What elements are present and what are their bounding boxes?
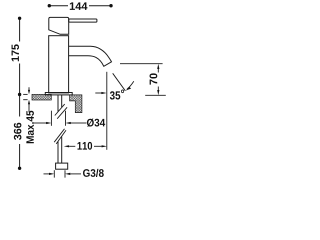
G3/8 right arrow and leader bbox=[65, 173, 70, 175]
countertop left slab (hatched) bbox=[32, 94, 51, 100]
countertop right piece (hatched) bbox=[70, 95, 82, 113]
label 366 bbox=[14, 123, 22, 140]
dimension dots on left line bbox=[18, 17, 21, 20]
label 110 bbox=[77, 142, 92, 150]
label G3/8 bbox=[83, 169, 104, 177]
label 70 bbox=[150, 73, 158, 84]
Max.45 dimension arrows and ticks bbox=[23, 93, 27, 95]
35 degrees: left arrow bbox=[95, 92, 101, 94]
70 dimension reference lines bbox=[120, 63, 163, 65]
35 degrees: inclined spout-axis line bbox=[113, 73, 126, 91]
label 175 bbox=[12, 44, 19, 61]
diameter 34 right extension tick bbox=[65, 111, 67, 126]
35 degrees: vertical reference line bbox=[106, 72, 108, 150]
hose break marks bbox=[55, 104, 65, 115]
supply hose below deck bbox=[57, 95, 59, 112]
label diameter 34 bbox=[87, 118, 105, 126]
left vertical dimension line (175/366) bbox=[19, 18, 21, 41]
label 35 degrees bbox=[110, 90, 124, 100]
base flange bbox=[45, 93, 72, 95]
G3/8 dimension ticks bbox=[53, 170, 55, 177]
hose end connector nut bbox=[56, 163, 68, 169]
70 dimension line with arrows bbox=[157, 64, 159, 69]
35 degrees: arc arrow bbox=[127, 81, 134, 89]
faucet spout bbox=[69, 46, 112, 66]
label Max.45 bbox=[26, 111, 34, 144]
label 144 bbox=[70, 2, 88, 10]
diameter 34 arrows bbox=[34, 122, 46, 124]
faucet handle head bbox=[49, 17, 69, 34]
110 dimension bbox=[64, 145, 69, 147]
dimension 144 line bbox=[51, 5, 69, 7]
faucet lever bbox=[69, 19, 97, 22]
G3/8 left arrow bbox=[44, 173, 50, 175]
diameter 34 left extension tick bbox=[50, 111, 52, 126]
faucet body bbox=[49, 36, 69, 93]
dimension 144 end dots bbox=[48, 4, 51, 7]
